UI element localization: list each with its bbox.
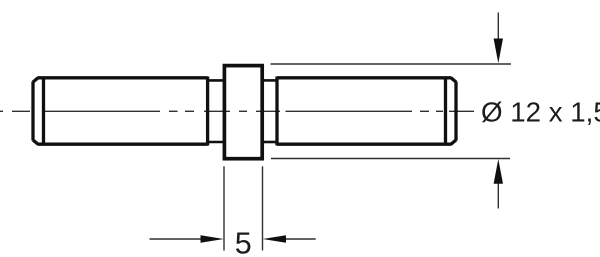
left shaft bottom line	[38, 143, 208, 146]
right shaft top line	[277, 76, 452, 79]
width dimension arrowhead right-pointing	[201, 235, 224, 242]
width dimension line left	[150, 238, 202, 240]
left neck top line	[208, 79, 224, 82]
right chamfer top diagonal	[451, 78, 456, 82]
left chamfer bottom diagonal	[33, 140, 38, 144]
left shaft top line	[38, 76, 208, 79]
left neck bottom line	[208, 141, 224, 144]
left shaft end vertical	[206, 77, 209, 146]
right shaft outline	[277, 77, 456, 146]
collar (center boss)	[224, 66, 262, 159]
right neck bottom line	[262, 141, 277, 144]
width dimension line right	[285, 238, 316, 240]
right extension line	[262, 166, 264, 250]
right chamfer bottom diagonal	[451, 140, 456, 144]
right neck (thread undercut)	[262, 80, 277, 142]
top extension line (collar top extended right)	[271, 63, 512, 65]
diameter dimension arrowhead down	[494, 39, 503, 64]
diameter dimension arrowhead up	[494, 159, 503, 184]
right neck top line	[262, 79, 277, 82]
left chamfer top diagonal	[33, 78, 38, 82]
left end face	[31, 82, 34, 141]
left extension line	[223, 166, 225, 250]
bottom extension line (collar bottom extended right)	[271, 158, 510, 160]
width dimension arrowhead left-pointing	[263, 235, 286, 242]
right chamfer vertical	[444, 77, 447, 146]
width dimension: extension lines below collar	[150, 166, 316, 250]
left chamfer vertical	[42, 77, 45, 146]
diameter dimension line lower part	[497, 183, 499, 209]
svg-text:Ø 12 x 1,5: Ø 12 x 1,5	[481, 96, 600, 127]
right shaft bottom line	[277, 143, 452, 146]
left neck (thread undercut)	[208, 80, 224, 142]
diameter dimension line upper part	[497, 13, 499, 41]
svg-text:5: 5	[235, 227, 252, 257]
right end face	[454, 82, 457, 141]
left shaft outline	[33, 77, 208, 146]
right shaft start vertical	[275, 77, 278, 146]
centerline (dash-dot axis)	[0, 110, 474, 112]
diameter dimension: extension lines	[271, 13, 512, 209]
